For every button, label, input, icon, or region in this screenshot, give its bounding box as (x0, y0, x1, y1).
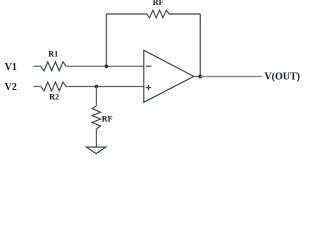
wire op-amp output (194, 76, 201, 78)
wire V1 lead (34, 65, 41, 67)
svg-text:V(OUT): V(OUT) (264, 71, 300, 82)
wire feedback top left segment (106, 13, 146, 15)
node junction dot V2/ground branch (95, 85, 99, 89)
wire R1 to op-amp inverting input (66, 65, 144, 67)
wire R2 to op-amp non-inverting input (66, 86, 144, 88)
node junction dot V1/feedback (105, 65, 109, 69)
wire V2 lead (34, 86, 41, 88)
wire feedback left vertical (105, 14, 107, 66)
svg-text:RF: RF (102, 115, 113, 124)
node junction dot output (198, 75, 202, 79)
wire feedback top right segment (169, 13, 200, 15)
op-amp inverting pin marker (146, 65, 152, 67)
svg-text:V1: V1 (5, 62, 17, 73)
op-amp non-inverting pin marker (146, 87, 151, 89)
svg-text:R1: R1 (48, 50, 58, 59)
resistor RF (feedback, top) (147, 10, 169, 18)
svg-text:R2: R2 (49, 93, 59, 102)
resistor R2 (41, 82, 66, 91)
wire RF to ground (95, 129, 97, 147)
resistor RF (to ground, vertical) (92, 106, 100, 129)
wire junction down to RF (95, 87, 97, 106)
resistor R1 (41, 62, 66, 71)
svg-text:V2: V2 (5, 82, 17, 93)
ground (86, 147, 106, 154)
svg-text:RF: RF (153, 0, 164, 7)
wire feedback right vertical (199, 14, 201, 77)
wire output to label (200, 76, 262, 78)
op-amp U1 (144, 50, 194, 102)
